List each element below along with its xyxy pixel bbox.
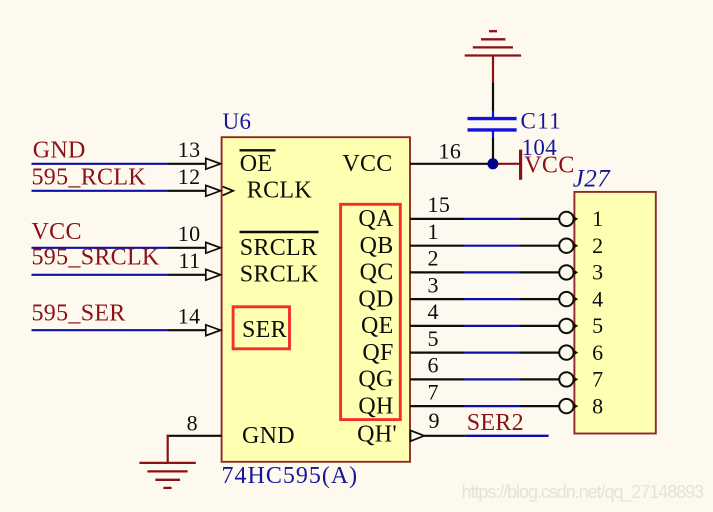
svg-text:VCC: VCC — [32, 219, 82, 245]
svg-text:QG: QG — [358, 367, 393, 393]
J27 pin 1 tip — [573, 216, 578, 222]
svg-text:GND: GND — [33, 137, 86, 163]
wire QA to J27 pin 1 — [410, 218, 464, 220]
svg-text:1: 1 — [592, 206, 603, 231]
J27 pin 8 tip — [573, 403, 578, 409]
J27 pin 3 open circle — [559, 265, 573, 279]
svg-text:SER2: SER2 — [467, 410, 524, 436]
svg-text:9: 9 — [429, 408, 440, 433]
svg-text:QH': QH' — [357, 421, 397, 447]
VCC power port bar — [519, 150, 522, 180]
J27 pin 4 tip — [573, 296, 578, 302]
svg-text:12: 12 — [178, 164, 201, 189]
wire pin 9 net SER2 — [424, 435, 465, 437]
wire node to VCC port — [498, 163, 519, 165]
capacitor C11 — [468, 111, 517, 138]
svg-text:2: 2 — [428, 246, 439, 271]
svg-text:QC: QC — [360, 260, 394, 286]
svg-text:595_SER: 595_SER — [32, 300, 126, 326]
wire QB to J27 pin 2 — [410, 245, 464, 247]
J27 pin 8 open circle — [559, 399, 573, 413]
svg-text:2: 2 — [592, 233, 603, 258]
svg-text:4: 4 — [428, 299, 439, 324]
J27 pin 3 tip — [573, 269, 578, 275]
svg-text:7: 7 — [428, 379, 439, 404]
J27 pin 5 tip — [573, 323, 578, 329]
wire ground stem (dark red) — [492, 56, 494, 84]
svg-text:7: 7 — [592, 367, 603, 392]
svg-text:J27: J27 — [573, 165, 611, 192]
svg-text:SER: SER — [242, 317, 287, 343]
svg-text:QH: QH — [358, 393, 393, 419]
svg-text:3: 3 — [428, 272, 439, 297]
pin 13 input arrow — [206, 158, 221, 169]
highlight box around QA-QH — [341, 204, 401, 419]
J27 pin 2 tip — [573, 243, 578, 249]
wire capacitor to node — [492, 138, 494, 164]
svg-text:595_SRCLK: 595_SRCLK — [32, 245, 160, 271]
J27 pin 6 open circle — [559, 345, 573, 359]
ground symbol (top) — [465, 31, 521, 55]
svg-text:QF: QF — [362, 340, 393, 366]
wire net GND to pin 13 — [32, 163, 169, 165]
pin name SRCLR overline — [240, 231, 319, 233]
svg-text:8: 8 — [592, 393, 603, 418]
svg-text:15: 15 — [428, 192, 451, 217]
svg-text:1: 1 — [428, 219, 439, 244]
pin 9 output arrow — [411, 430, 425, 441]
svg-text:https://blog.csdn.net/qq_27148: https://blog.csdn.net/qq_27148893 — [462, 482, 705, 503]
pin name OE overline — [240, 149, 276, 151]
pin 11 input arrow — [206, 269, 221, 280]
svg-text:595_RCLK: 595_RCLK — [32, 165, 147, 191]
svg-text:14: 14 — [178, 303, 201, 328]
svg-text:QE: QE — [361, 313, 394, 339]
svg-text:11: 11 — [179, 248, 201, 273]
wire QH to J27 pin 8 — [410, 405, 464, 407]
wire pin 16 VCC — [410, 163, 490, 165]
connector J27 body — [574, 192, 655, 434]
wire QF to J27 pin 6 — [410, 352, 464, 354]
ground symbol (bottom) — [139, 463, 195, 488]
J27 pin 1 open circle — [559, 212, 573, 226]
svg-text:8: 8 — [187, 411, 198, 436]
wire net 595_SER to pin 14 — [32, 329, 169, 331]
svg-text:5: 5 — [592, 313, 603, 338]
svg-text:U6: U6 — [223, 109, 252, 134]
wire QE to J27 pin 5 — [410, 325, 464, 327]
J27 pin 7 tip — [573, 376, 578, 382]
wire pin 8 to ground — [167, 435, 222, 437]
J27 pin 2 open circle — [559, 239, 573, 253]
wire net 595_SRCLK to pin 11 — [32, 274, 169, 276]
J27 pin 4 open circle — [559, 292, 573, 306]
highlight box around SER — [233, 307, 289, 349]
wire net 595_RCLK to pin 12 — [32, 190, 169, 192]
J27 pin 6 tip — [573, 349, 578, 355]
svg-text:5: 5 — [428, 326, 439, 351]
svg-text:10: 10 — [178, 221, 201, 246]
J27 pin 5 open circle — [559, 319, 573, 333]
svg-text:OE: OE — [240, 151, 273, 177]
svg-text:16: 16 — [439, 139, 462, 164]
pin 12 input arrow — [206, 185, 221, 196]
svg-text:4: 4 — [592, 286, 603, 311]
svg-text:3: 3 — [592, 260, 603, 285]
wire QG to J27 pin 7 — [410, 378, 464, 380]
svg-text:C11: C11 — [521, 108, 562, 133]
svg-text:SRCLR: SRCLR — [240, 235, 318, 261]
J27 pin 7 open circle — [559, 372, 573, 386]
svg-text:QB: QB — [360, 233, 394, 259]
svg-text:6: 6 — [592, 340, 603, 365]
svg-text:QD: QD — [358, 286, 393, 312]
svg-text:RCLK: RCLK — [247, 178, 313, 204]
pin 12 clock chevron — [223, 187, 234, 196]
svg-text:74HC595(A): 74HC595(A) — [222, 463, 359, 489]
pin 10 input arrow — [206, 242, 221, 253]
wire ground to capacitor — [492, 83, 494, 111]
wire QC to J27 pin 3 — [410, 271, 464, 273]
svg-text:VCC: VCC — [524, 152, 575, 178]
pin 14 input arrow — [206, 325, 221, 336]
svg-text:VCC: VCC — [342, 151, 392, 177]
svg-text:QA: QA — [358, 206, 394, 232]
svg-text:13: 13 — [178, 137, 201, 162]
wire net VCC to pin 10 — [32, 247, 169, 249]
svg-text:SRCLK: SRCLK — [240, 262, 319, 288]
svg-text:GND: GND — [242, 423, 295, 449]
IC U6 74HC595 body — [222, 137, 410, 462]
wire QD to J27 pin 4 — [410, 298, 464, 300]
svg-text:6: 6 — [428, 353, 439, 378]
junction node dot — [487, 158, 498, 169]
